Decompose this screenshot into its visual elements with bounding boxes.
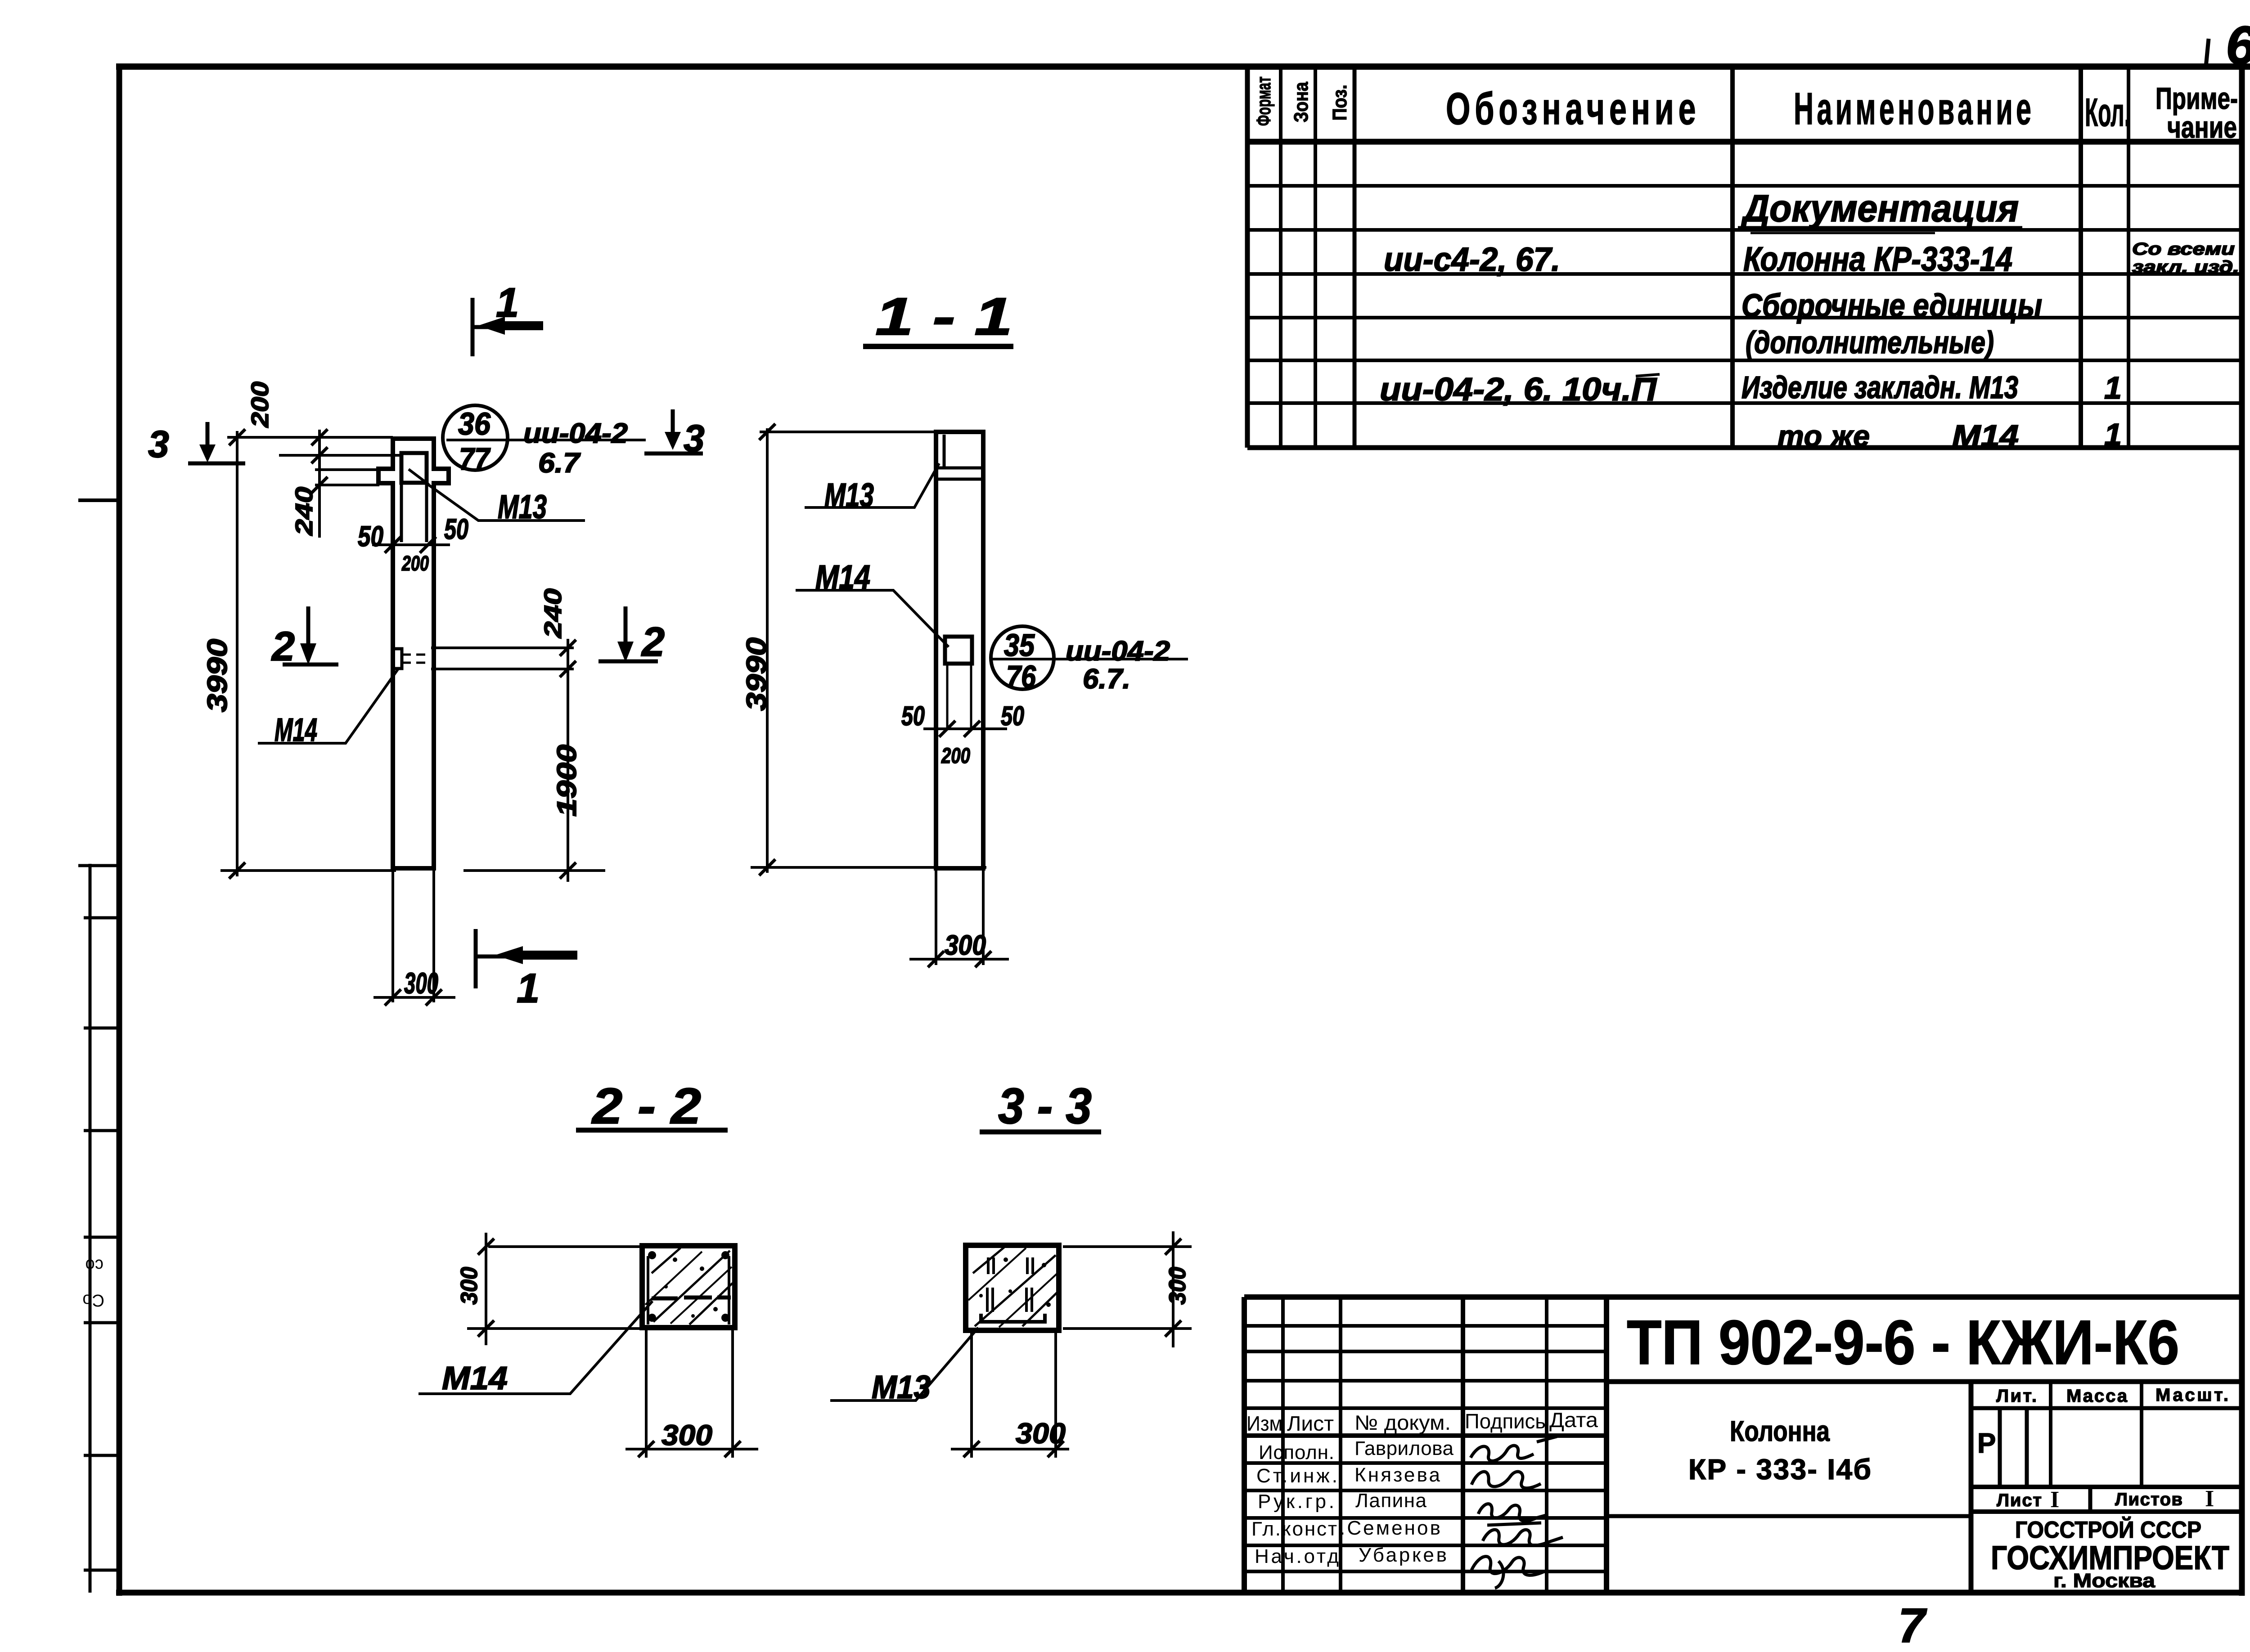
svg-text:3: 3 xyxy=(148,423,169,465)
svg-text:Колонна КР-333-14: Колонна КР-333-14 xyxy=(1743,240,2012,278)
svg-text:I: I xyxy=(2050,1487,2059,1513)
svg-text:Изм: Изм xyxy=(1246,1412,1282,1435)
svg-text:ии-04-2: ии-04-2 xyxy=(523,418,628,449)
svg-text:1 - 1: 1 - 1 xyxy=(875,287,1012,346)
svg-text:Документация: Документация xyxy=(1741,187,2019,229)
svg-text:Сборочные единицы: Сборочные единицы xyxy=(1741,288,2042,324)
svg-text:1: 1 xyxy=(496,280,519,326)
svg-text:200: 200 xyxy=(401,552,429,575)
svg-text:I: I xyxy=(2205,1486,2214,1512)
svg-text:300: 300 xyxy=(661,1419,712,1451)
svg-text:240: 240 xyxy=(291,487,318,536)
svg-text:Формат: Формат xyxy=(1253,76,1275,126)
svg-text:6: 6 xyxy=(2226,15,2250,76)
svg-text:2 - 2: 2 - 2 xyxy=(591,1078,701,1134)
svg-text:Гаврилова: Гаврилова xyxy=(1354,1437,1454,1459)
svg-text:ТП 902-9-6 - КЖИ-К6: ТП 902-9-6 - КЖИ-К6 xyxy=(1627,1307,2179,1378)
svg-text:240: 240 xyxy=(540,588,567,638)
svg-text:то же: то же xyxy=(1777,419,1870,453)
svg-text:Листов: Листов xyxy=(2115,1490,2182,1509)
svg-text:76: 76 xyxy=(1006,659,1036,694)
svg-text:г. Москва: г. Москва xyxy=(2053,1570,2155,1592)
svg-text:ии-04-2, 6. 10ч.П: ии-04-2, 6. 10ч.П xyxy=(1380,372,1657,408)
svg-text:200: 200 xyxy=(247,382,274,428)
svg-text:Изделие закладн. М13: Изделие закладн. М13 xyxy=(1741,370,2018,405)
svg-text:закл. изд.: закл. изд. xyxy=(2132,258,2239,277)
svg-text:Наименование: Наименование xyxy=(1794,83,2034,134)
svg-text:35: 35 xyxy=(1004,628,1035,663)
svg-text:3990: 3990 xyxy=(741,637,772,711)
svg-text:6.7.: 6.7. xyxy=(1083,664,1130,695)
svg-text:300: 300 xyxy=(1016,1417,1066,1450)
svg-text:Лапина: Лапина xyxy=(1355,1490,1427,1512)
svg-text:200: 200 xyxy=(941,744,970,768)
svg-text:3 - 3: 3 - 3 xyxy=(998,1078,1092,1134)
svg-text:50: 50 xyxy=(1001,701,1024,731)
svg-text:ии-04-2: ии-04-2 xyxy=(1066,636,1170,667)
svg-text:50: 50 xyxy=(901,701,925,731)
svg-text:Дата: Дата xyxy=(1549,1408,1598,1432)
svg-text:Кол.: Кол. xyxy=(2085,90,2130,135)
svg-text:300: 300 xyxy=(1165,1267,1191,1305)
svg-text:2: 2 xyxy=(641,619,665,665)
svg-text:Со всеми: Со всеми xyxy=(2132,240,2235,259)
svg-text:Ст.инж.: Ст.инж. xyxy=(1256,1465,1337,1487)
svg-text:Р: Р xyxy=(1977,1428,1996,1459)
svg-text:Лист: Лист xyxy=(1997,1490,2042,1510)
svg-text:1: 1 xyxy=(2104,417,2122,452)
svg-text:М13: М13 xyxy=(872,1369,931,1405)
svg-text:М14: М14 xyxy=(815,558,870,596)
svg-text:7: 7 xyxy=(1898,1598,1927,1652)
svg-text:Обозначение: Обозначение xyxy=(1446,84,1700,134)
svg-text:Подпись: Подпись xyxy=(1465,1410,1546,1433)
svg-text:М14: М14 xyxy=(1952,419,2019,453)
svg-text:ии-с4-2, 67.: ии-с4-2, 67. xyxy=(1384,241,1560,278)
svg-text:Колонна: Колонна xyxy=(1730,1415,1830,1447)
svg-text:3990: 3990 xyxy=(202,639,233,712)
svg-text:300: 300 xyxy=(456,1267,482,1305)
svg-text:Со: Со xyxy=(82,1291,104,1310)
svg-text:6.7: 6.7 xyxy=(538,448,581,479)
svg-text:М13: М13 xyxy=(824,476,874,514)
svg-text:КР - 333- I4б: КР - 333- I4б xyxy=(1688,1453,1871,1486)
svg-text:№ докум.: № докум. xyxy=(1354,1411,1451,1434)
svg-text:36: 36 xyxy=(458,406,491,441)
svg-text:Лист: Лист xyxy=(1287,1412,1334,1435)
svg-text:М14: М14 xyxy=(442,1360,508,1396)
svg-text:со: со xyxy=(85,1256,103,1275)
svg-text:300: 300 xyxy=(404,966,438,1000)
svg-text:чание: чание xyxy=(2167,110,2237,144)
svg-text:77: 77 xyxy=(459,441,491,476)
svg-text:1: 1 xyxy=(2104,370,2122,405)
svg-text:50: 50 xyxy=(444,513,468,545)
svg-text:Поз.: Поз. xyxy=(1329,85,1351,121)
svg-text:1: 1 xyxy=(517,965,540,1011)
svg-text:(дополнительные): (дополнительные) xyxy=(1746,325,1994,360)
svg-text:1900: 1900 xyxy=(552,745,582,817)
svg-text:М13: М13 xyxy=(498,488,547,525)
svg-text:Исполн.: Исполн. xyxy=(1259,1441,1334,1463)
svg-text:Гл.конст: Гл.конст xyxy=(1251,1518,1337,1540)
svg-text:Масса: Масса xyxy=(2066,1386,2128,1406)
svg-text:Зона: Зона xyxy=(1290,82,1312,122)
svg-text:300: 300 xyxy=(945,930,986,961)
svg-text:Масшт.: Масшт. xyxy=(2155,1385,2228,1405)
svg-text:М14: М14 xyxy=(274,712,317,748)
svg-text:50: 50 xyxy=(358,520,383,552)
